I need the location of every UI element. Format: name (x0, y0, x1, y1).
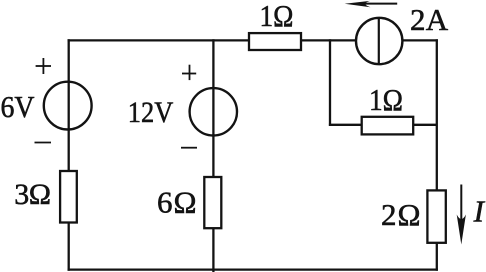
svg-text:6V: 6V (1, 89, 36, 124)
svg-text:1Ω: 1Ω (369, 82, 403, 117)
svg-text:1Ω: 1Ω (260, 0, 294, 33)
svg-text:2A: 2A (410, 2, 449, 37)
svg-text:3Ω: 3Ω (14, 178, 50, 211)
svg-text:6Ω: 6Ω (157, 184, 198, 219)
svg-text:I: I (473, 194, 486, 229)
svg-text:2Ω: 2Ω (381, 197, 422, 232)
svg-text:12V: 12V (128, 96, 174, 129)
